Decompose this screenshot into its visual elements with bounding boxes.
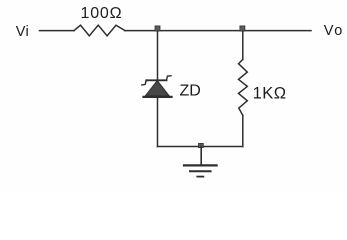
wire resistor to output (125, 30, 311, 32)
wire zener branch vertical (157, 31, 159, 147)
svg-text:100Ω: 100Ω (81, 5, 123, 22)
zener diode ZD (142, 76, 172, 97)
svg-text:Vo: Vo (324, 23, 344, 39)
svg-text:ZD: ZD (180, 83, 201, 100)
svg-text:1KΩ: 1KΩ (253, 85, 287, 103)
resistor R2 1Kohm (239, 60, 248, 116)
junction node A (155, 26, 160, 31)
wire input Vi to resistor (40, 30, 75, 32)
wire bottom (158, 146, 243, 148)
wire 1K branch top (242, 31, 244, 60)
wire 1K branch bottom (242, 115, 244, 146)
junction node B (240, 26, 245, 31)
ground (184, 147, 217, 177)
junction ground node (199, 143, 204, 147)
resistor R1 100ohm (74, 25, 125, 36)
svg-text:Vi: Vi (16, 24, 29, 40)
